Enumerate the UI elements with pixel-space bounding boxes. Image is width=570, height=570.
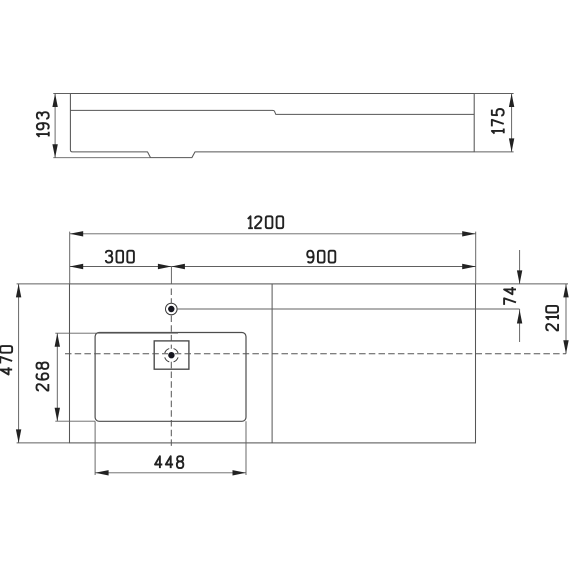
dimension 300 arrows [70, 264, 172, 269]
dimension 1200 line [70, 232, 476, 284]
dimension 1200 text [248, 216, 283, 228]
plan divider line [271, 284, 273, 443]
dashed horizontal centerline left of drain [65, 353, 168, 355]
dimension 193 line [53, 94, 150, 158]
dimension 193 text [37, 112, 49, 137]
dimension 210 arrows [563, 284, 568, 354]
side view inner ledge line [70, 110, 474, 114]
dimension 74 line [519, 250, 521, 342]
dimension 900 line [171, 266, 475, 268]
dimension 470 arrows [16, 284, 21, 443]
dimension 300 line [70, 267, 172, 284]
dimension 74 arrows [517, 270, 522, 323]
dimension 470 text [0, 346, 12, 374]
drain square [154, 341, 189, 369]
dimension 193 arrows [52, 94, 57, 158]
dimension 900 arrows [171, 264, 475, 269]
dimension 300 text [106, 251, 134, 263]
dashed vertical centerline between faucet and drain [170, 316, 172, 349]
plan top edge right extension [476, 283, 569, 285]
dimension 470 line [17, 284, 70, 443]
dimension 175 line [474, 94, 513, 152]
dimension 210 line [565, 284, 567, 354]
plan view rectangle [70, 284, 476, 443]
faucet leader line to 74 dim [177, 308, 519, 310]
dimension 900 text [307, 251, 335, 263]
basin rounded rectangle [95, 333, 246, 422]
dimension 448 text [155, 456, 183, 468]
dimension 210 text [546, 306, 558, 331]
dimension 268 arrows [55, 333, 60, 421]
dimension 175 arrows [509, 94, 514, 152]
dashed horizontal centerline right of drain [175, 353, 566, 355]
faucet hole outer circle [166, 303, 178, 315]
faucet hole dot [168, 306, 174, 312]
dashed vertical centerline below drain [170, 362, 172, 449]
side view outline [70, 94, 474, 158]
dimension 268 line [55, 333, 178, 421]
dimension 268 text [36, 362, 48, 390]
dimension 448 arrows [95, 470, 246, 475]
dimension 175 text [492, 109, 504, 134]
dimension 448 line [95, 421, 246, 475]
dashed vertical centerline above faucet [170, 289, 172, 304]
drain hole dot [168, 352, 174, 358]
dimension 1200 arrows [70, 231, 476, 236]
dimension 74 text [504, 287, 516, 305]
drain dashed circle arcs [165, 349, 178, 362]
